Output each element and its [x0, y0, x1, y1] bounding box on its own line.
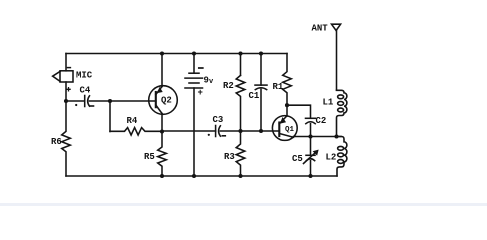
svg-text:R4: R4	[127, 116, 138, 126]
svg-text:R6: R6	[51, 137, 62, 147]
node junction L1/L2	[334, 134, 338, 138]
wire top rail	[66, 53, 287, 55]
wire Q2 emitter down	[161, 114, 163, 132]
inductor L1	[337, 90, 347, 136]
node bottom R3	[238, 174, 242, 178]
inductor L2	[337, 137, 347, 177]
battery minus label	[199, 67, 203, 69]
resistor R4	[110, 128, 162, 135]
bottom strip	[0, 203, 487, 206]
wire C5 stub bottom	[310, 161, 312, 176]
svg-text:ANT: ANT	[312, 24, 329, 34]
wire C1 stub bottom	[260, 89, 262, 131]
svg-text:C1: C1	[249, 91, 260, 101]
node junction R1/collector	[285, 103, 289, 107]
wire C5 stub top	[310, 137, 312, 155]
capacitor C1	[255, 85, 267, 90]
svg-text:R3: R3	[224, 152, 235, 162]
node junction mic/C4/R6	[64, 99, 68, 103]
node junction R4/R5/emitter	[160, 129, 164, 133]
transistor Q1	[272, 116, 297, 141]
node junction R4 tap	[108, 99, 112, 103]
trimmer capacitor C5	[304, 150, 319, 163]
transistor Q2	[149, 86, 178, 115]
resistor R1	[283, 54, 292, 106]
wire R1 node to C2	[287, 105, 311, 117]
svg-text:C2: C2	[316, 116, 327, 126]
svg-text:Q1: Q1	[285, 126, 295, 134]
C4 plus dot	[75, 104, 77, 106]
svg-text:C3: C3	[213, 115, 224, 125]
svg-text:L1: L1	[323, 98, 334, 108]
mic plus mark	[67, 88, 70, 91]
C3 plus dot	[208, 134, 210, 136]
wire emitter rail right	[294, 136, 342, 138]
resistor R2	[236, 75, 245, 131]
wire MIC to node	[65, 82, 67, 101]
wire R2/R3 vertical top	[240, 54, 242, 76]
wire C2 stub bottom	[310, 124, 312, 137]
svg-text:R5: R5	[144, 152, 155, 162]
C4 minus	[91, 105, 94, 107]
antenna ANT	[332, 24, 341, 90]
wire R4 branch vertical	[109, 101, 111, 132]
node bottom rail battery	[192, 174, 196, 178]
svg-text:v: v	[209, 78, 214, 86]
capacitor C4	[85, 96, 90, 107]
svg-text:R2: R2	[223, 81, 234, 91]
wire emitter/base run with C3	[162, 130, 216, 132]
node top rail C1	[259, 51, 263, 55]
resistor R5	[158, 132, 167, 177]
resistor R3	[236, 131, 245, 176]
battery 9v	[185, 54, 203, 177]
wire C4 to Q2 base	[90, 100, 156, 102]
node top rail Q2	[160, 51, 164, 55]
capacitor C2	[306, 118, 316, 123]
node top rail R2	[238, 51, 242, 55]
wire C1 stub top	[260, 54, 262, 86]
wire bottom rail	[66, 175, 337, 177]
node bottom C5	[308, 174, 312, 178]
capacitor C3	[216, 126, 221, 137]
node junction R2/R3/C3	[238, 129, 242, 133]
wire node to C4	[66, 100, 84, 102]
svg-text:MIC: MIC	[76, 71, 93, 81]
mic minus mark	[67, 67, 70, 69]
node bottom R5	[160, 174, 164, 178]
microphone MIC	[53, 71, 73, 82]
svg-text:C5: C5	[292, 154, 303, 164]
svg-text:+: +	[198, 88, 203, 98]
svg-text:R1: R1	[273, 82, 284, 92]
wire Q1 collector	[286, 105, 288, 116]
resistor R6	[62, 101, 71, 176]
wire left vertical to MIC	[65, 54, 67, 71]
svg-text:Q2: Q2	[161, 96, 172, 106]
node top rail battery	[192, 51, 196, 55]
node junction C2/C5	[308, 134, 312, 138]
wire Q2 collector	[161, 54, 163, 87]
svg-text:C4: C4	[80, 86, 91, 96]
C3 minus	[222, 135, 225, 137]
wire C3 to Q1 base	[220, 130, 279, 132]
node junction C1/base wire	[259, 129, 263, 133]
svg-text:L2: L2	[326, 153, 337, 163]
